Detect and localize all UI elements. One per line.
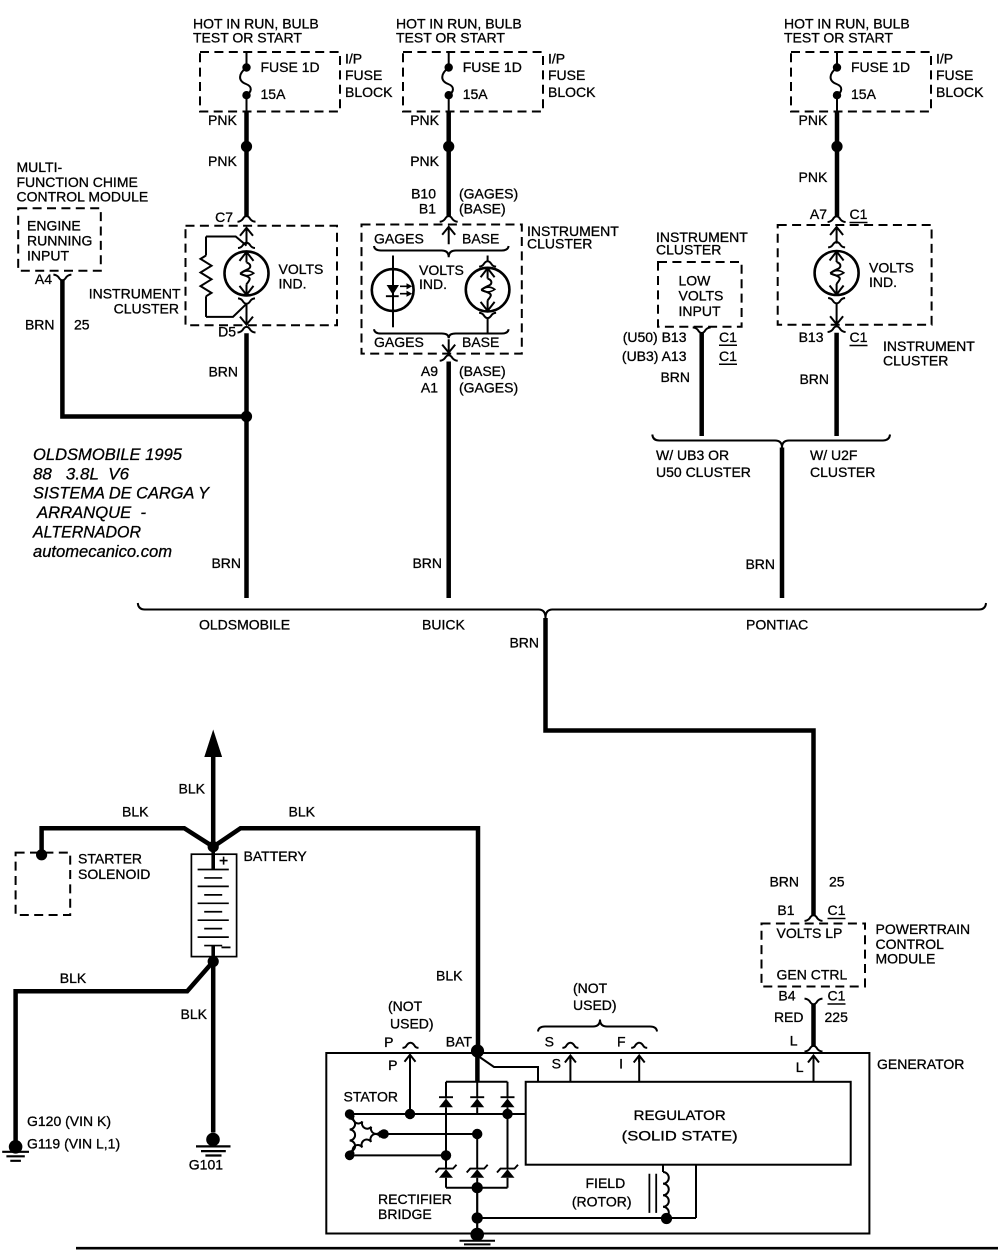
connector cluster3 top (828, 216, 846, 222)
svg-text:FUSE 1D: FUSE 1D (261, 59, 320, 75)
low volts input box (658, 262, 742, 327)
svg-text:B13: B13 (799, 329, 824, 345)
svg-text:GAGES: GAGES (374, 231, 424, 247)
splice dot col2 (443, 141, 454, 152)
svg-text:BRN: BRN (208, 364, 238, 380)
fuse col1 FUSE 1D 15A (246, 52, 248, 64)
svg-text:USED): USED) (573, 997, 617, 1013)
svg-text:(SOLID STATE): (SOLID STATE) (622, 1128, 738, 1144)
LED branch wire (392, 256, 394, 270)
fuse col3 FUSE 1D 15A (836, 52, 838, 64)
svg-text:PNK: PNK (799, 112, 828, 128)
fuse col2 FUSE 1D 15A (448, 52, 450, 64)
svg-text:IND.: IND. (419, 276, 447, 292)
svg-text:TEST OR START: TEST OR START (396, 30, 505, 46)
svg-text:(ROTOR): (ROTOR) (572, 1194, 632, 1210)
instrument cluster 3 box (778, 225, 932, 325)
PNK wire col3 (835, 112, 840, 217)
I/P fuse block box col3 (791, 52, 931, 112)
svg-text:(NOT: (NOT (388, 998, 423, 1014)
BLK wire to G119 (16, 962, 214, 1142)
svg-text:BASE: BASE (462, 231, 499, 247)
svg-text:ALTERNADOR: ALTERNADOR (32, 524, 141, 542)
svg-text:FUSE 1D: FUSE 1D (851, 59, 910, 75)
cluster2 top brace (374, 246, 509, 257)
svg-text:15A: 15A (851, 86, 877, 102)
svg-text:RED: RED (774, 1009, 804, 1025)
svg-text:25: 25 (74, 317, 90, 333)
rectifier zener 1 (445, 1155, 447, 1169)
rectifier bottom dot (472, 1182, 483, 1193)
svg-text:B1: B1 (777, 902, 794, 918)
svg-text:TEST OR START: TEST OR START (784, 30, 893, 46)
svg-text:FUSE: FUSE (345, 67, 382, 83)
connector L (805, 1046, 823, 1052)
svg-text:PNK: PNK (410, 153, 439, 169)
lamp top socket cluster1 (238, 243, 255, 248)
svg-text:S: S (552, 1056, 561, 1072)
svg-text:PNK: PNK (208, 153, 237, 169)
lamp branch lower wire (487, 318, 489, 333)
page bottom line (76, 1247, 998, 1250)
lamp bottom socket cluster2 (479, 313, 496, 318)
svg-text:INSTRUMENT: INSTRUMENT (89, 286, 181, 302)
cluster3 entry arrow (830, 227, 843, 244)
svg-text:15A: 15A (261, 86, 287, 102)
svg-text:P: P (384, 1034, 393, 1050)
BAT sense line (477, 1056, 538, 1082)
svg-text:S: S (545, 1034, 554, 1050)
svg-text:automecanico.com: automecanico.com (33, 543, 172, 561)
rectifier diode 3 (507, 1082, 509, 1099)
chime module box (18, 208, 101, 270)
svg-text:BLK: BLK (436, 968, 463, 984)
BRN wire col3 lamp (834, 333, 839, 436)
rectifier diode 1 continues (445, 1114, 447, 1155)
svg-text:L: L (790, 1033, 798, 1049)
svg-text:STARTER: STARTER (78, 851, 142, 867)
svg-text:FUSE 1D: FUSE 1D (463, 59, 522, 75)
PNK wire col1 (244, 112, 249, 217)
svg-text:P: P (388, 1057, 397, 1073)
ground return dot (472, 1212, 483, 1223)
svg-text:A9: A9 (421, 363, 438, 379)
svg-text:F: F (617, 1034, 626, 1050)
connector cluster2 top (440, 216, 458, 222)
svg-text:OLDSMOBILE 1995: OLDSMOBILE 1995 (33, 446, 183, 464)
svg-text:RECTIFIER: RECTIFIER (378, 1191, 452, 1207)
svg-text:W/ U2F: W/ U2F (810, 447, 857, 463)
svg-text:REGULATOR: REGULATOR (634, 1107, 726, 1123)
powertrain control module box (762, 924, 866, 987)
splice dot col3 (831, 141, 842, 152)
rectifier zener 2 (476, 1134, 478, 1169)
svg-text:IND.: IND. (869, 274, 897, 290)
connector A4 (53, 275, 71, 281)
svg-text:FIELD: FIELD (586, 1175, 626, 1191)
svg-text:I: I (619, 1056, 623, 1072)
svg-text:D5: D5 (218, 324, 236, 340)
rectifier top rail (446, 1081, 508, 1083)
junction dot col1 (241, 411, 252, 422)
ground G119 (9, 1140, 23, 1154)
pontiac cluster brace (652, 435, 890, 448)
connector cluster3 bottom B13 C1 (828, 326, 846, 332)
main BRN wire (546, 618, 814, 915)
rectifier diode 3 stub (507, 1107, 509, 1114)
connector C7 (238, 216, 256, 222)
svg-text:BRN: BRN (745, 556, 775, 572)
stator winding left (350, 1114, 356, 1155)
svg-text:SISTEMA DE CARGA Y: SISTEMA DE CARGA Y (33, 485, 210, 503)
stator phase line 1 (350, 1113, 526, 1115)
connector B1 C1 (805, 915, 823, 921)
battery symbol (191, 854, 236, 956)
svg-text:CLUSTER: CLUSTER (883, 353, 948, 369)
svg-text:I/P: I/P (345, 51, 362, 67)
RED wire (811, 1004, 816, 1046)
svg-text:C1: C1 (828, 902, 846, 918)
svg-text:I/P: I/P (936, 51, 953, 67)
svg-text:C7: C7 (215, 209, 233, 225)
generator box (326, 1053, 869, 1234)
svg-text:(NOT: (NOT (573, 980, 608, 996)
connector P (403, 1043, 419, 1048)
svg-text:GAGES: GAGES (374, 334, 424, 350)
svg-text:225: 225 (825, 1009, 849, 1025)
stator phase line 3 (350, 1154, 446, 1156)
svg-text:VOLTS LP: VOLTS LP (777, 925, 843, 941)
lamp top socket cluster3 (828, 242, 845, 247)
svg-text:BUICK: BUICK (422, 617, 465, 633)
svg-text:(GAGES): (GAGES) (459, 186, 518, 202)
generator ground (470, 1228, 484, 1242)
field core bars (649, 1174, 656, 1213)
svg-text:L: L (796, 1059, 804, 1075)
svg-text:C1: C1 (719, 329, 737, 345)
svg-text:W/ UB3 OR: W/ UB3 OR (656, 447, 729, 463)
svg-text:(UB3) A13: (UB3) A13 (622, 348, 687, 364)
svg-text:I/P: I/P (548, 51, 565, 67)
battery top dot (208, 841, 219, 852)
svg-text:25: 25 (829, 874, 845, 890)
svg-text:15A: 15A (463, 86, 489, 102)
svg-text:C1: C1 (850, 329, 868, 345)
svg-text:BASE: BASE (462, 334, 499, 350)
svg-text:BRN: BRN (799, 371, 829, 387)
stator winding top (350, 1114, 384, 1134)
svg-text:B10: B10 (411, 186, 436, 202)
svg-text:FUSE: FUSE (936, 67, 973, 83)
I/P fuse block box col1 (200, 52, 340, 112)
svg-text:IND.: IND. (279, 276, 307, 292)
generator ground wire (476, 1188, 478, 1235)
svg-text:PNK: PNK (410, 112, 439, 128)
svg-text:A4: A4 (35, 271, 52, 287)
rectifier zener 3 (507, 1114, 509, 1169)
svg-text:B1: B1 (419, 201, 436, 217)
svg-text:CLUSTER: CLUSTER (527, 236, 592, 252)
svg-text:GEN CTRL: GEN CTRL (777, 967, 848, 983)
connector cluster2 bottom (440, 355, 458, 361)
svg-text:BLK: BLK (289, 804, 316, 820)
svg-text:BRN: BRN (660, 369, 690, 385)
svg-text:BLOCK: BLOCK (548, 84, 596, 100)
splice dot col1 (241, 141, 252, 152)
svg-text:BLK: BLK (179, 781, 206, 797)
svg-text:CONTROL MODULE: CONTROL MODULE (17, 189, 149, 205)
lamp top socket cluster2 (479, 261, 496, 266)
not used brace SF (538, 1020, 657, 1032)
svg-text:U50 CLUSTER: U50 CLUSTER (656, 464, 751, 480)
svg-text:PNK: PNK (208, 112, 237, 128)
svg-text:BAT: BAT (446, 1034, 473, 1050)
ground G101 (206, 1133, 220, 1147)
svg-text:A7: A7 (810, 206, 827, 222)
svg-text:USED): USED) (390, 1016, 434, 1032)
BAT wire inside (475, 1051, 480, 1082)
svg-text:PONTIAC: PONTIAC (746, 617, 808, 633)
resistor cluster1 (205, 237, 207, 256)
svg-text:(BASE): (BASE) (459, 201, 506, 217)
svg-text:BLK: BLK (122, 804, 149, 820)
starter solenoid dot (36, 849, 47, 860)
stator winding bottom (350, 1134, 384, 1155)
cluster3 exit arrow (830, 303, 843, 324)
resistor top branch wire (206, 237, 247, 246)
connector low volts (693, 327, 711, 333)
svg-text:CLUSTER: CLUSTER (656, 242, 721, 258)
svg-text:(BASE): (BASE) (459, 363, 506, 379)
cluster1 exit arrow (240, 304, 253, 325)
instrument cluster 1 box (186, 226, 338, 325)
connector S (562, 1043, 578, 1048)
svg-text:POWERTRAIN: POWERTRAIN (876, 921, 971, 937)
instrument cluster 2 box (362, 225, 522, 354)
BLK bus wire (42, 828, 214, 855)
field coil dot (661, 1213, 672, 1224)
PNK wire col2 (446, 112, 451, 217)
svg-text:BRN: BRN (769, 874, 799, 890)
regulator box (526, 1082, 851, 1165)
rectifier diode 1 (445, 1082, 447, 1099)
svg-text:BATTERY: BATTERY (244, 848, 308, 864)
LED indicator cluster2 (372, 269, 414, 311)
ground return line (477, 1217, 696, 1219)
svg-text:BRN: BRN (412, 555, 442, 571)
svg-text:88 3.8L V6: 88 3.8L V6 (33, 466, 130, 484)
svg-text:VOLTS: VOLTS (679, 288, 724, 304)
svg-text:BLOCK: BLOCK (936, 84, 984, 100)
svg-text:BRN: BRN (509, 635, 539, 651)
svg-text:FUSE: FUSE (548, 67, 585, 83)
svg-text:(U50) B13: (U50) B13 (623, 329, 687, 345)
volts indicator lamp cluster1 (225, 251, 269, 295)
lamp bottom socket cluster1 (238, 298, 255, 303)
volts indicator lamp cluster3 (815, 251, 859, 295)
svg-text:MODULE: MODULE (876, 951, 936, 967)
field coil (662, 1165, 664, 1172)
BLK wire to G101 (211, 962, 216, 1133)
battery bottom dot (208, 956, 219, 967)
svg-text:GENERATOR: GENERATOR (877, 1056, 964, 1072)
BRN wire low volts (699, 333, 704, 436)
cluster2 exit arrow (442, 339, 455, 352)
battery feed arrow (204, 730, 222, 758)
cluster2 entry arrow (442, 227, 455, 244)
connector B4 C1 (805, 999, 823, 1005)
svg-text:STATOR: STATOR (344, 1089, 398, 1105)
rectifier diode 2 (476, 1082, 478, 1099)
title text block (32, 446, 210, 561)
BRN wire pontiac (780, 448, 785, 599)
svg-text:BRN: BRN (25, 317, 55, 333)
svg-text:RUNNING: RUNNING (27, 233, 92, 249)
svg-text:C1: C1 (828, 988, 846, 1004)
svg-text:C1: C1 (719, 348, 737, 364)
svg-text:B4: B4 (778, 988, 795, 1004)
svg-text:BRIDGE: BRIDGE (378, 1206, 432, 1222)
svg-text:LOW: LOW (679, 273, 712, 289)
svg-text:CLUSTER: CLUSTER (114, 301, 179, 317)
lamp branch wire (487, 256, 489, 262)
P junction dot (405, 1109, 415, 1119)
svg-text:BLK: BLK (60, 970, 87, 986)
phase dots (502, 1109, 512, 1119)
svg-text:SOLENOID: SOLENOID (78, 866, 150, 882)
svg-text:G119 (VIN L,1): G119 (VIN L,1) (27, 1136, 120, 1152)
svg-text:C1: C1 (850, 206, 868, 222)
svg-text:TEST OR START: TEST OR START (193, 30, 302, 46)
stator phase line 2 (384, 1133, 477, 1135)
BRN wire col2 (446, 362, 451, 599)
BAT dot (471, 1044, 484, 1057)
starter solenoid box (16, 853, 71, 915)
lamp bottom socket cluster3 (828, 298, 845, 303)
chime module BRN wire (62, 280, 243, 416)
resistor bottom branch wire (206, 304, 246, 317)
main brace (138, 603, 986, 618)
svg-text:INPUT: INPUT (679, 303, 721, 319)
svg-text:ENGINE: ENGINE (27, 218, 81, 234)
svg-text:PNK: PNK (799, 169, 828, 185)
svg-text:A1: A1 (421, 380, 438, 396)
volts indicator lamp cluster2 (466, 268, 510, 312)
svg-text:BLK: BLK (181, 1006, 208, 1022)
rectifier bottom rail (446, 1187, 508, 1189)
cluster2 bottom brace (374, 329, 509, 338)
svg-text:INPUT: INPUT (27, 248, 69, 264)
stator corner dots (345, 1109, 355, 1119)
svg-text:CLUSTER: CLUSTER (810, 464, 875, 480)
svg-text:G101: G101 (189, 1156, 223, 1172)
svg-text:BLOCK: BLOCK (345, 84, 393, 100)
svg-text:(GAGES): (GAGES) (459, 380, 518, 396)
svg-text:G120 (VIN K): G120 (VIN K) (27, 1113, 111, 1129)
svg-text:OLDSMOBILE: OLDSMOBILE (199, 617, 290, 633)
svg-text:MULTI-: MULTI- (17, 159, 63, 175)
cluster1 entry arrow (240, 228, 253, 244)
BRN wire col1 (244, 333, 249, 598)
connector F (631, 1043, 647, 1048)
svg-text:ARRANQUE -: ARRANQUE - (36, 504, 147, 522)
I/P fuse block box col2 (403, 52, 543, 112)
svg-text:BRN: BRN (211, 555, 241, 571)
connector D5 (238, 327, 256, 333)
